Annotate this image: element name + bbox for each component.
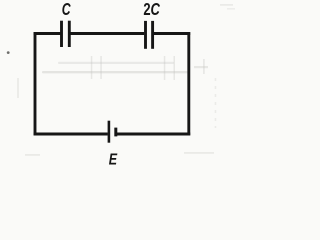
faint mark bottom right [184,152,214,154]
faint bleed-through line 2 [42,71,188,73]
faint bleed-through tick [174,56,176,80]
svg-text:2C: 2C [143,0,160,20]
faint mark right margin [194,66,208,68]
speck left margin [7,51,10,54]
faint smudge left margin [17,78,19,98]
wire: top left segment [34,32,61,35]
wire: top right segment [154,32,191,35]
wire: left side of loop [34,32,37,135]
faint mark top right 2 [227,8,235,10]
faint mark top right [220,4,233,6]
faint mark right margin 2 [203,59,205,74]
capacitor C right plate [68,21,71,47]
battery E short plate [114,128,117,137]
capacitor 2C left plate [144,21,147,49]
capacitor C left plate [60,21,63,47]
wire: bottom right segment [117,133,191,136]
wire: bottom left segment [34,133,108,136]
faint bleed-through tick [91,56,93,79]
wire: right side of loop [187,32,190,135]
faint bleed-through tick [164,56,166,80]
faint mark bottom left [25,154,40,156]
faint bleed-through line 1 [58,62,174,64]
capacitor 2C right plate [151,21,154,49]
faint dotted line right margin [215,78,217,128]
battery E long plate [108,121,111,143]
wire: top middle segment [71,32,145,35]
svg-text:E: E [109,151,118,169]
svg-text:C: C [62,0,72,20]
faint bleed-through tick [100,56,102,79]
